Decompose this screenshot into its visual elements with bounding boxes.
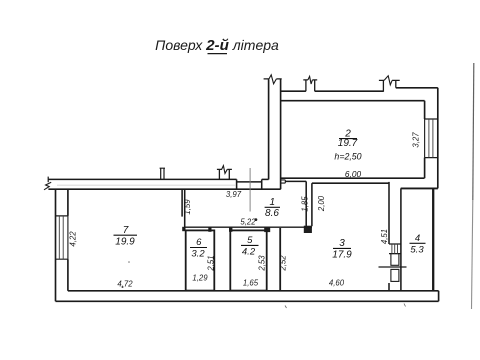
noise speck near room 1 label [255, 218, 258, 221]
wall: door nub right of thick wall [281, 180, 286, 183]
wall: break cap above thick wall [264, 78, 282, 80]
wall: thick partition wall left line [268, 79, 270, 179]
wall: bottom wall right end cap [438, 291, 440, 302]
noise speck below room 7 dimension [122, 286, 124, 288]
wall: axis stub on top wall [160, 168, 165, 179]
svg-text:19.9: 19.9 [115, 237, 135, 248]
door D34: lower frame [391, 269, 399, 281]
wall: room 4 right wall [432, 188, 434, 290]
wall: break zigzag left end [44, 182, 51, 190]
svg-text:4,22: 4,22 [69, 231, 78, 247]
title: Поверх 2-й літера [155, 37, 279, 54]
svg-text:1,85: 1,85 [300, 196, 309, 212]
wall: break pilaster B2 on upper top wall [303, 80, 317, 91]
wall: thick partition wall right line [280, 79, 282, 189]
room 2 label [338, 129, 358, 150]
svg-text:2,51: 2,51 [207, 255, 216, 271]
wall: break tick at left end of top wall [47, 177, 49, 183]
svg-text:5.3: 5.3 [410, 245, 424, 256]
window W3: caps in rooms 3/4 wall [389, 244, 401, 254]
svg-text:6: 6 [196, 237, 202, 248]
wall: jamb block at room 6 right [208, 227, 211, 232]
wall: rooms 1/3 partition bottom cap (filled) [304, 226, 312, 233]
svg-text:1,59: 1,59 [183, 199, 192, 215]
svg-text:Поверх 2-й літера: Поверх 2-й літера [155, 37, 279, 54]
svg-text:1: 1 [270, 197, 276, 208]
room 3 label [332, 238, 352, 261]
room 5 label [242, 235, 256, 258]
dimension labels [69, 132, 421, 289]
svg-text:2,53: 2,53 [257, 255, 266, 272]
wall: room7/corridor partition left line [181, 189, 183, 216]
wall: bottom wall inner edge [68, 290, 439, 292]
noise tick below bottom wall right [404, 304, 406, 307]
svg-text:8.6: 8.6 [265, 208, 279, 219]
svg-text:6,00: 6,00 [345, 169, 362, 179]
wall: upper-section top wall inner edge [281, 100, 425, 102]
wall: room7/corridor partition right line [184, 189, 186, 230]
wall: right outer wall inner line above window [424, 101, 426, 119]
wall: left outer wall outer line [55, 189, 57, 301]
wall: room 3 top edge [312, 182, 389, 184]
room 5 box outline [230, 230, 266, 290]
wall: room3 left wall (shared with room5 shaft) [279, 228, 281, 291]
wall: room 3 right wall lower stub [388, 283, 390, 291]
wall: top edge short segment right of doorway [262, 178, 269, 180]
wall: jamb block at room 5 left [229, 227, 232, 232]
wall: jamb block at room 6 left / room7 wall foot [182, 227, 185, 231]
window W2: glazing lines [429, 119, 433, 158]
wall: room 4 top wall [401, 187, 438, 189]
door D34: small frame below window [391, 254, 399, 266]
svg-text:2,00: 2,00 [317, 195, 326, 212]
wall: right outer wall of room 2 outer line [437, 88, 439, 189]
wall: bottom wall outer edge [56, 300, 439, 302]
window W2: caps in right wall of room 2 [425, 119, 438, 158]
wall: room 2 bottom wall top edge [281, 177, 425, 179]
svg-text:4,72: 4,72 [117, 280, 133, 289]
svg-text:3.2: 3.2 [191, 249, 205, 260]
room 6 box outline [186, 230, 215, 290]
room 6 label [191, 237, 205, 259]
wall: break pilaster on left-section top wall [217, 169, 232, 179]
svg-text:7: 7 [123, 225, 129, 236]
wall: left outer wall inner line below window [67, 259, 69, 291]
window W1: glazing lines [59, 216, 63, 259]
svg-text:3: 3 [339, 238, 345, 249]
svg-text:3,97: 3,97 [226, 190, 242, 199]
svg-text:4.2: 4.2 [242, 247, 256, 258]
door D34: threshold crossing line [379, 266, 407, 268]
wall: room 3 right wall upper segment [388, 182, 390, 244]
wall: jamb block at room 5 right [264, 227, 270, 232]
noise speck in room 7 [128, 261, 130, 263]
wall: left outer wall inner line above window [67, 189, 69, 216]
wall: rooms 1/3 partition right line [311, 183, 313, 226]
window W1: caps in left wall [56, 216, 68, 259]
scan artifact: faint vertical line at far right [473, 63, 474, 200]
svg-text:19.7: 19.7 [338, 138, 358, 149]
wall: break pilaster B3 on upper top wall [379, 80, 400, 91]
room 4 label [410, 233, 424, 256]
wall: entry doorway top line [237, 181, 262, 183]
window W3: glazing lines [392, 244, 398, 254]
wall: left-section top wall inner edge [48, 188, 280, 190]
wall: left-section top wall outer edge [48, 178, 236, 180]
wall: corridor bottom line / dimension line 5,22 [185, 226, 312, 228]
svg-text:5: 5 [247, 235, 253, 246]
noise tick below bottom wall left [285, 306, 287, 309]
wall: rooms 1/3 partition left line [305, 181, 307, 226]
room 7 label [115, 225, 135, 248]
svg-text:3,27: 3,27 [412, 132, 421, 148]
wall: faint mid guideline of top wall [57, 184, 236, 186]
wall: doorway jamb left [236, 179, 238, 189]
svg-text:5,22: 5,22 [240, 218, 256, 227]
wall: doorway jamb right [261, 179, 263, 189]
wall: upper-section top wall outer edge [281, 88, 438, 91]
svg-text:4: 4 [415, 233, 420, 244]
wall: room 4 left wall [400, 188, 402, 290]
wall: right outer wall inner line below window [424, 158, 426, 179]
room 1 label [265, 197, 279, 219]
dimension extension line at x=250 [249, 168, 251, 212]
svg-text:17.9: 17.9 [332, 250, 352, 261]
svg-text:1,29: 1,29 [192, 274, 208, 283]
wall: room 1 top edge [285, 180, 306, 182]
svg-text:4,51: 4,51 [380, 229, 389, 244]
svg-text:h=2,50: h=2,50 [334, 152, 361, 162]
svg-text:2,52: 2,52 [278, 255, 287, 272]
svg-text:1,65: 1,65 [243, 279, 259, 288]
svg-text:4,60: 4,60 [329, 279, 345, 288]
